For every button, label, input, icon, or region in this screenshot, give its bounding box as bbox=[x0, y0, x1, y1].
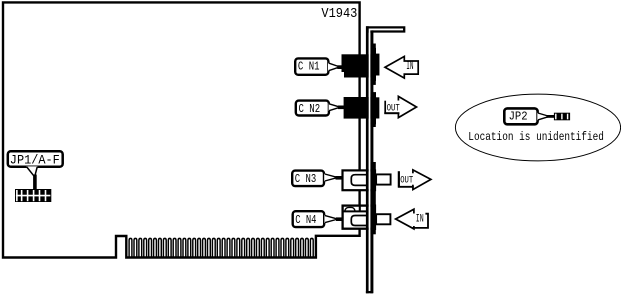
svg-text:OUT: OUT bbox=[400, 176, 413, 187]
bracket ear bbox=[366, 27, 404, 31]
arrow OUT (CN2) bbox=[384, 96, 416, 117]
svg-text:V1943: V1943 bbox=[321, 6, 357, 22]
bracket bottom cap bbox=[366, 291, 373, 293]
arrow IN (CN4) bbox=[396, 209, 428, 229]
callout label CN4 bbox=[293, 211, 343, 227]
connector CN3 plug tip bbox=[376, 174, 391, 184]
connector CN3 body bbox=[343, 170, 375, 190]
jumper icon JP2 bbox=[554, 113, 570, 121]
jumper block JP1 bbox=[15, 189, 51, 202]
card outline bbox=[3, 2, 360, 257]
arrow IN (CN1) bbox=[385, 56, 418, 78]
edge connector fingers bbox=[129, 238, 313, 257]
callout label JP2 bbox=[504, 108, 555, 124]
svg-text:OUT: OUT bbox=[387, 103, 400, 114]
svg-text:JP2: JP2 bbox=[509, 110, 528, 124]
callout label CN3 bbox=[292, 171, 342, 187]
arrow OUT (CN3) bbox=[398, 170, 431, 190]
callout label CN2 bbox=[296, 101, 344, 117]
svg-text:C N3: C N3 bbox=[295, 172, 316, 186]
svg-text:JP1/A-F: JP1/A-F bbox=[10, 153, 60, 168]
connector CN4 column bbox=[370, 205, 376, 231]
connector CN4 body bbox=[342, 206, 375, 229]
bracket slot (white gap) bbox=[369, 33, 371, 291]
connector CN1 block bbox=[342, 48, 380, 81]
svg-text:C N2: C N2 bbox=[299, 102, 321, 116]
connector CN4 plug tip bbox=[376, 214, 390, 224]
svg-text:Location is unidentified: Location is unidentified bbox=[468, 130, 604, 144]
bracket right line bbox=[370, 30, 373, 293]
bracket left line bbox=[366, 26, 369, 293]
svg-text:C N4: C N4 bbox=[295, 213, 316, 227]
bracket nubs bbox=[370, 44, 375, 49]
connector CN3 column bbox=[370, 169, 376, 191]
svg-text:C N1: C N1 bbox=[298, 59, 320, 73]
svg-text:IN: IN bbox=[416, 213, 424, 225]
callout label CN1 bbox=[295, 58, 342, 74]
JP2 note ellipse bbox=[455, 94, 620, 161]
callout label JP1/A-F bbox=[8, 151, 63, 190]
svg-text:IN: IN bbox=[406, 60, 413, 73]
connector CN2 block bbox=[344, 92, 380, 124]
